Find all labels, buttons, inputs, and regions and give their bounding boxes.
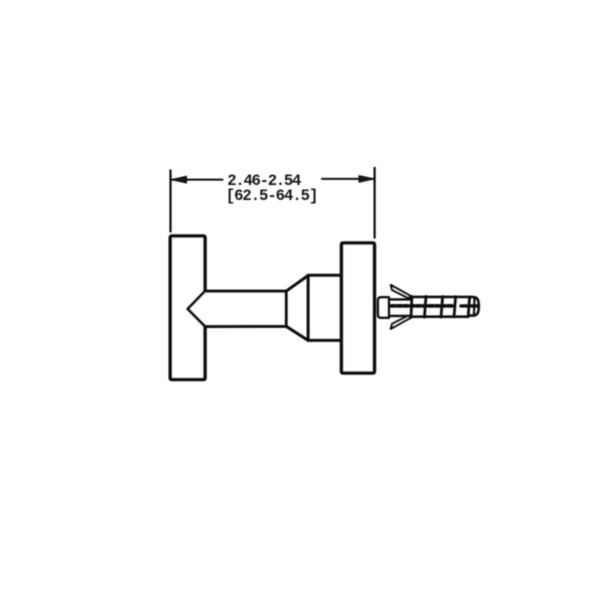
flange (wall plate): [342, 243, 375, 373]
anchor tip slot solid line: [461, 304, 478, 307]
shaft body with pointed chevron end: [188, 291, 287, 326]
knob bar (tee handle end cap): [170, 236, 205, 380]
anchor collar: [378, 297, 389, 317]
extension line right: [374, 168, 376, 238]
dimension line left segment: [172, 179, 223, 181]
cylinder top line: [308, 274, 342, 277]
anchor rib 4: [454, 297, 456, 317]
dimension arrowhead left: [171, 176, 186, 183]
svg-text:[62.5-64.5]: [62.5-64.5]: [226, 187, 318, 205]
anchor rib 3: [441, 297, 443, 318]
anchor rib 2: [424, 296, 426, 317]
cone bottom slant: [286, 326, 308, 340]
anchor rib 1: [410, 297, 414, 318]
cone base vertical: [307, 276, 310, 341]
dimension line right segment: [322, 178, 374, 180]
anchor barbs top edge: [412, 296, 470, 299]
anchor expansion slot dotted centre line: [392, 304, 453, 308]
anchor fin lower: [391, 316, 411, 329]
anchor tip outline: [469, 297, 479, 316]
extension line left: [169, 170, 171, 231]
anchor barbs bottom edge: [411, 315, 468, 318]
anchor tip rib: [473, 298, 476, 316]
cylinder bottom line: [308, 339, 342, 342]
anchor neck top line: [389, 298, 411, 300]
anchor neck bottom line: [389, 315, 411, 317]
dimension arrowhead right: [359, 176, 374, 183]
cone top slant: [286, 276, 308, 292]
anchor fin upper: [391, 285, 411, 298]
anchor rib 5: [468, 297, 469, 317]
